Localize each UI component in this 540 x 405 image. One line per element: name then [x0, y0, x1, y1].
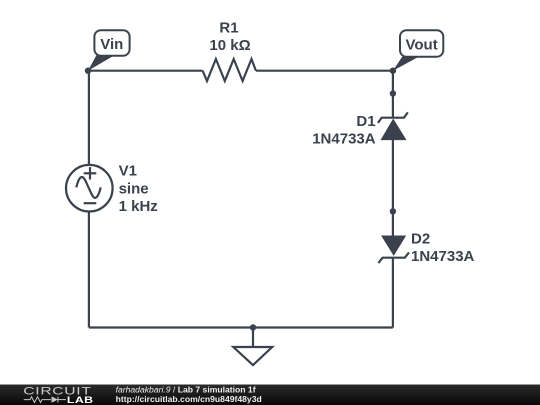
wire right rail lower — [392, 258, 394, 328]
wire right rail upper — [392, 71, 394, 118]
node ground junction dot — [250, 324, 256, 330]
V1 minus sign — [84, 202, 97, 204]
svg-text:V1: V1 — [119, 163, 137, 180]
diode D2 zener cathode bar — [378, 252, 409, 263]
Vin flag pointer — [88, 55, 113, 70]
svg-text:D1: D1 — [356, 113, 375, 130]
resistor R1 — [203, 59, 256, 81]
Vout flag pointer — [393, 57, 418, 71]
wire top left segment — [88, 70, 203, 72]
diode D1 zener cathode bar — [378, 112, 408, 123]
svg-text:http://circuitlab.com/cn9u849f: http://circuitlab.com/cn9u849f48y3d — [116, 394, 262, 404]
V1 plus sign — [84, 172, 97, 174]
logo squiggle — [24, 397, 66, 403]
svg-text:sine: sine — [119, 180, 149, 197]
svg-text:1N4733A: 1N4733A — [312, 131, 376, 148]
ground triangle — [233, 347, 272, 365]
voltage source V1 circle — [66, 165, 113, 212]
node D1 terminal dot — [390, 90, 396, 96]
diode D1 triangle — [381, 119, 407, 141]
svg-text:Vin: Vin — [100, 36, 123, 53]
svg-text:10 kΩ: 10 kΩ — [209, 37, 250, 54]
wire top right segment — [256, 70, 393, 72]
wire bottom — [89, 326, 393, 328]
svg-text:LAB: LAB — [67, 395, 94, 405]
node Vin junction dot — [85, 68, 91, 74]
svg-text:D2: D2 — [411, 231, 430, 248]
diode D2 triangle — [381, 236, 406, 256]
Vin flag box — [94, 30, 129, 56]
wire between D1 and D2 — [392, 140, 394, 236]
wire left rail lower — [88, 212, 90, 328]
node D2 terminal dot — [390, 208, 396, 214]
svg-text:1N4733A: 1N4733A — [411, 248, 475, 265]
Vout flag box — [400, 30, 443, 57]
node Vout junction dot — [390, 68, 396, 74]
V1 sine wave — [76, 177, 100, 198]
svg-text:R1: R1 — [219, 20, 238, 37]
svg-text:1 kHz: 1 kHz — [119, 198, 158, 215]
svg-text:Vout: Vout — [405, 36, 437, 53]
ground stem — [252, 328, 254, 348]
wire left rail upper — [88, 71, 90, 165]
